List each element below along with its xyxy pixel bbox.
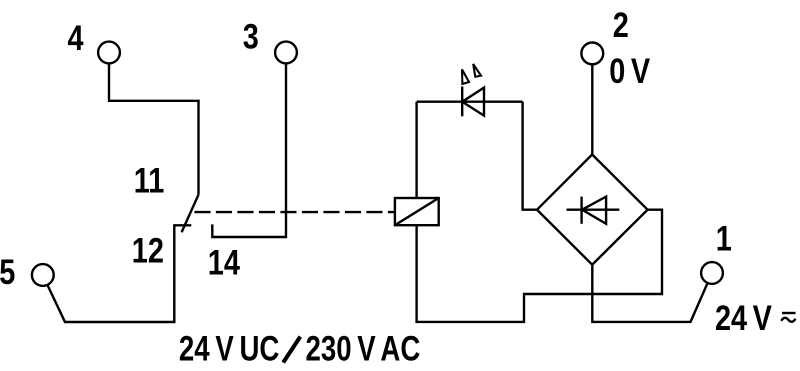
svg-text:3: 3 [243, 17, 259, 56]
svg-text:14: 14 [208, 243, 240, 282]
svg-text:11: 11 [134, 161, 165, 200]
svg-text:4: 4 [68, 19, 84, 58]
svg-text:12: 12 [132, 231, 164, 270]
svg-text:2: 2 [613, 5, 629, 44]
svg-text:5: 5 [0, 252, 15, 291]
svg-text:1: 1 [716, 219, 732, 258]
svg-text:24 V: 24 V [715, 298, 772, 337]
svg-text:0 V: 0 V [609, 51, 650, 90]
svg-text:230 V AC: 230 V AC [306, 328, 421, 368]
svg-text:24 V UC: 24 V UC [179, 328, 279, 368]
